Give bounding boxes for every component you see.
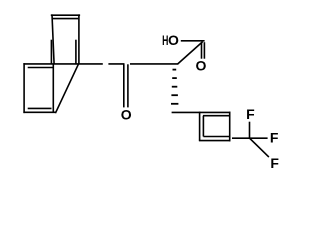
ring B left vertical inner <box>50 40 52 65</box>
svg-text:F: F <box>270 155 279 171</box>
bond HO to carboxyl carbon <box>181 40 205 42</box>
hash wedge dash 3 <box>172 86 178 88</box>
bond CF3 carbon to bottom F <box>250 138 269 157</box>
carboxyl C=O double bond line 2 <box>203 42 205 59</box>
svg-text:O: O <box>196 57 207 73</box>
ring B left vertical outer <box>52 14 54 64</box>
ketone C=O double bond line 1 <box>123 64 125 107</box>
ketone C=O double bond line 2 <box>127 64 129 107</box>
ring C right vertical <box>52 64 54 113</box>
ring D left vertical outer <box>199 112 201 141</box>
bond to ketone carbon <box>108 63 124 65</box>
bond stereocenter to carboxyl carbon <box>178 42 203 65</box>
ring D top inner (double bond) <box>203 115 230 117</box>
ring C top inner (double bond) <box>28 67 54 69</box>
svg-text:F: F <box>246 106 255 122</box>
hash wedge dash 2 <box>172 77 177 79</box>
svg-text:F: F <box>270 130 279 146</box>
ring B right vertical inner <box>75 40 77 65</box>
hash wedge dash 1 <box>173 69 177 71</box>
bond CH2 to ring D / ring D top edge <box>172 111 231 113</box>
ring B top edge outer <box>51 14 80 16</box>
bridge diagonal bond <box>55 64 78 113</box>
ring C left vertical <box>23 63 25 113</box>
hash wedge dash 5 <box>171 103 178 105</box>
hash wedge dash 4 <box>171 94 178 96</box>
ring C bottom inner (double bond) <box>28 107 52 109</box>
bond ring D to CF3 carbon and to right F <box>232 137 268 139</box>
ring C bottom outer <box>23 111 55 113</box>
ring D bottom outer <box>199 140 231 142</box>
carboxyl C=O double bond line 1 <box>201 42 203 59</box>
ring D right vertical <box>229 112 231 142</box>
bond CF3 carbon to top F <box>249 122 251 139</box>
main horizontal chain bond left <box>23 63 102 65</box>
ring D left vertical inner <box>202 116 204 137</box>
svg-text:O: O <box>168 32 179 48</box>
bond ketone to stereocenter <box>130 63 178 65</box>
ring B right vertical outer <box>78 14 80 64</box>
ring D bottom inner (double bond) <box>203 136 230 138</box>
ring B top edge inner (double bond) <box>53 18 79 20</box>
svg-text:O: O <box>121 107 132 123</box>
